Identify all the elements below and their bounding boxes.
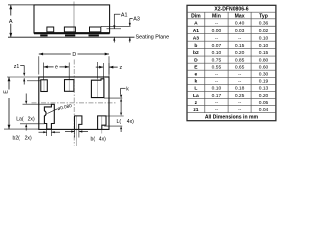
svg-text:0.20: 0.20 <box>235 50 245 56</box>
svg-text:e: e <box>195 73 198 78</box>
svg-text:--: -- <box>215 21 219 26</box>
svg-text:0.65: 0.65 <box>235 65 245 71</box>
svg-text:0.36: 0.36 <box>259 20 269 26</box>
svg-text:b(: b( <box>91 136 96 142</box>
svg-text:0.18: 0.18 <box>235 86 245 92</box>
svg-text:0.03: 0.03 <box>235 28 245 34</box>
svg-text:X2-DFN0806-6: X2-DFN0806-6 <box>214 7 248 13</box>
svg-text:--: -- <box>238 101 242 106</box>
svg-text:2x): 2x) <box>28 116 35 122</box>
svg-text:--: -- <box>215 73 219 78</box>
svg-text:0.13: 0.13 <box>259 86 269 92</box>
svg-text:A: A <box>194 20 198 26</box>
svg-text:All Dimensions in mm: All Dimensions in mm <box>205 115 259 121</box>
svg-text:4x): 4x) <box>99 136 106 142</box>
svg-text:k: k <box>195 79 198 85</box>
svg-text:z: z <box>120 65 123 71</box>
svg-text:2x): 2x) <box>25 136 32 142</box>
svg-text:0.19: 0.19 <box>259 79 269 85</box>
svg-text:D: D <box>72 52 76 58</box>
svg-text:b: b <box>194 43 197 49</box>
svg-text:0.05: 0.05 <box>259 100 269 106</box>
svg-text:0.07: 0.07 <box>212 43 222 49</box>
svg-text:b2: b2 <box>193 50 199 56</box>
svg-text:L(: L( <box>117 119 122 125</box>
svg-text:Typ: Typ <box>259 13 268 19</box>
svg-text:La: La <box>193 93 199 99</box>
svg-text:--: -- <box>238 36 242 41</box>
svg-text:--: -- <box>238 80 242 85</box>
svg-text:0.02: 0.02 <box>259 28 269 34</box>
svg-text:0.40: 0.40 <box>235 20 245 26</box>
svg-text:--: -- <box>215 101 219 106</box>
svg-text:0.60: 0.60 <box>259 65 269 71</box>
svg-text:0.10: 0.10 <box>259 43 269 49</box>
svg-text:E: E <box>4 90 10 94</box>
svg-text:0.15: 0.15 <box>235 43 245 49</box>
svg-text:--: -- <box>215 80 219 85</box>
svg-text:0.55: 0.55 <box>212 65 222 71</box>
svg-text:z1: z1 <box>193 107 198 113</box>
svg-text:Seating Plane: Seating Plane <box>136 35 170 41</box>
svg-text:A1: A1 <box>193 28 200 34</box>
svg-text:--: -- <box>238 108 242 113</box>
svg-text:0.00: 0.00 <box>212 28 222 34</box>
svg-text:0.15: 0.15 <box>259 50 269 56</box>
svg-text:0.30: 0.30 <box>259 72 269 78</box>
svg-text:0.17: 0.17 <box>212 93 222 99</box>
svg-text:k: k <box>126 86 129 92</box>
svg-text:0.20: 0.20 <box>259 93 269 99</box>
svg-text:A: A <box>9 19 13 25</box>
svg-text:D: D <box>194 57 198 63</box>
svg-text:Dim: Dim <box>191 13 201 19</box>
svg-text:La(: La( <box>16 116 24 122</box>
svg-text:--: -- <box>215 108 219 113</box>
svg-text:A3: A3 <box>133 16 140 22</box>
svg-text:0.75: 0.75 <box>212 57 222 63</box>
svg-text:0.25: 0.25 <box>235 93 245 99</box>
svg-text:z1: z1 <box>14 64 20 70</box>
svg-text:b2(: b2( <box>13 136 21 142</box>
svg-text:4x): 4x) <box>127 119 134 125</box>
svg-text:0.10: 0.10 <box>212 50 222 56</box>
svg-text:--: -- <box>238 73 242 78</box>
svg-text:0.85: 0.85 <box>235 57 245 63</box>
svg-text:Max: Max <box>235 13 245 19</box>
svg-text:A1: A1 <box>121 12 128 18</box>
svg-text:0.10: 0.10 <box>259 35 269 41</box>
svg-text:Min: Min <box>212 13 221 19</box>
svg-text:A3: A3 <box>193 35 200 41</box>
svg-text:e: e <box>55 65 58 71</box>
svg-text:0.04: 0.04 <box>259 107 269 113</box>
svg-text:0.10: 0.10 <box>212 86 222 92</box>
svg-text:--: -- <box>215 36 219 41</box>
svg-text:0.80: 0.80 <box>259 57 269 63</box>
svg-text:L: L <box>194 86 197 92</box>
